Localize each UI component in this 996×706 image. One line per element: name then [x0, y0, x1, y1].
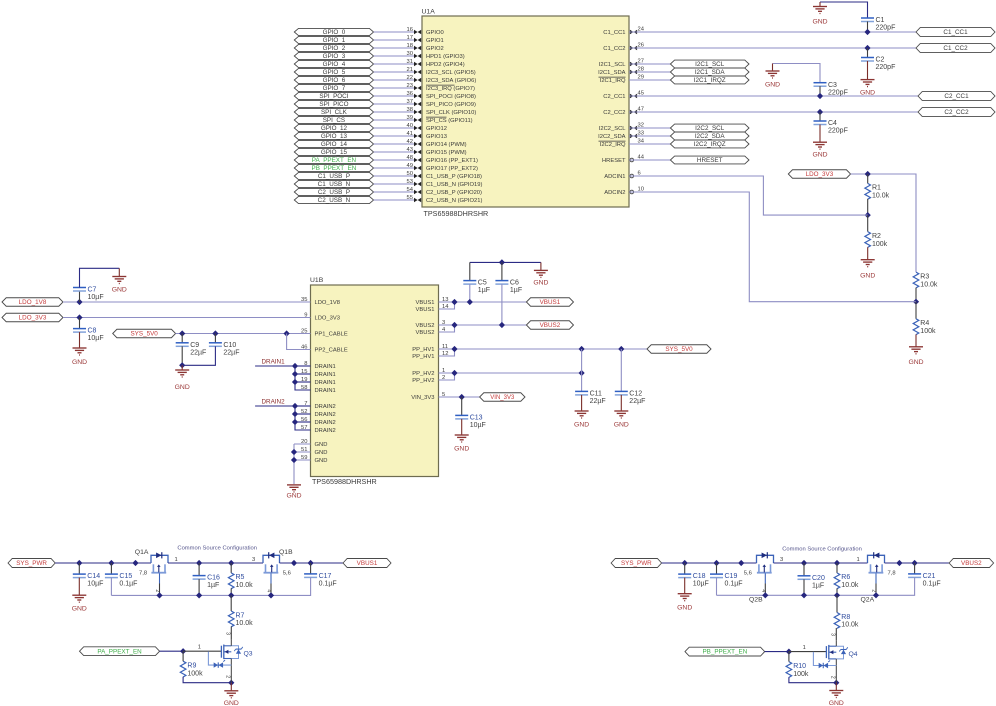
svg-text:C12: C12 [629, 391, 642, 398]
svg-text:GPIO_3: GPIO_3 [323, 53, 346, 60]
junction LDO_1V8 / C7 [76, 299, 82, 305]
junction rail j post Q2A [896, 560, 902, 566]
wire R6 bottom lead [836, 588, 838, 595]
U1A pin 36 SPI_POCI (GPIO8) [414, 94, 418, 98]
wire net I2C1_IRQZ [629, 79, 670, 81]
junction C9/C10 gnd node [179, 362, 185, 368]
net label C1_CC1 [916, 28, 995, 37]
svg-text:TPS65988DHRSHR: TPS65988DHRSHR [312, 477, 377, 486]
junction DRAIN1 j2 [292, 371, 298, 377]
junction rail j post Q1B [291, 560, 297, 566]
svg-text:GPIO_2: GPIO_2 [323, 45, 346, 52]
svg-text:SPI_CLK: SPI_CLK [321, 109, 348, 116]
svg-text:1µF: 1µF [478, 287, 490, 294]
svg-text:C1: C1 [876, 17, 885, 24]
wire C11 top wire [581, 349, 583, 391]
svg-text:10µF: 10µF [87, 581, 103, 588]
wire R8 top lead [836, 595, 838, 612]
net label SYS_5V0 [113, 329, 176, 338]
svg-text:LDO_3V3: LDO_3V3 [19, 315, 47, 322]
svg-text:2: 2 [870, 589, 876, 592]
wire net SPI_CLK to U1A pin 38 [374, 111, 414, 113]
svg-text:SYS_PWR: SYS_PWR [621, 560, 652, 567]
net label C2_USB_P [294, 188, 373, 195]
resistor R1 10.0k [865, 183, 871, 199]
junction bus j Q1B [268, 592, 274, 598]
wire net VBUS2 row [439, 324, 527, 326]
svg-text:Q1B: Q1B [279, 549, 293, 556]
junction bus j R6R8 [834, 592, 840, 598]
svg-text:GPIO_5: GPIO_5 [323, 69, 346, 76]
U1A pin 55 C2_USB_N (GPIO21) [414, 198, 418, 202]
svg-text:GND: GND [286, 492, 301, 499]
wire C16 bottom lead [198, 579, 200, 595]
junction VBUS2 j pin4 [451, 322, 457, 328]
wire net LDO_1V8 [63, 301, 311, 303]
junction SYS_5V0 / C9 [179, 330, 185, 336]
wire net HRESET [629, 159, 670, 161]
wire C5 bottom lead [469, 284, 471, 302]
U1A pin 30 HPD1 (GPIO3) [414, 54, 418, 58]
svg-text:TPS65988DHRSHR: TPS65988DHRSHR [424, 209, 489, 218]
svg-text:10.0k: 10.0k [841, 622, 859, 629]
wire net C1_CC1 [629, 31, 916, 33]
net label SPI_CS [294, 116, 373, 123]
wire R5 bottom lead [230, 588, 232, 595]
ground GND [581, 395, 583, 411]
wire C9 top lead [181, 334, 183, 343]
svg-text:0.1µF: 0.1µF [319, 581, 337, 588]
svg-text:C1_CC2: C1_CC2 [943, 45, 968, 52]
wire net GPIO_7 to U1A pin 23 [374, 87, 414, 89]
svg-text:220pF: 220pF [876, 25, 896, 32]
capacitor C12 22µF [615, 390, 628, 392]
net label GPIO_3 [294, 52, 373, 59]
wire R6 top lead [836, 563, 838, 573]
wire R4 top lead [915, 302, 917, 319]
svg-text:Common Source Configuration: Common Source Configuration [782, 547, 862, 553]
transistor Q2A [868, 555, 885, 563]
svg-text:Q2B: Q2B [749, 597, 763, 604]
capacitor C17 0.1µF [304, 573, 317, 575]
junction SYS_5V0 / PP2 branch [284, 330, 290, 336]
resistor R10 100k [786, 662, 792, 678]
wire C4 lead [819, 112, 821, 121]
wire source bus left [111, 577, 310, 595]
net label C1_CC2 [916, 44, 995, 53]
U1A pin 50 C1_USB_P (GPIO18) [414, 174, 418, 178]
svg-text:I2C1_SCL: I2C1_SCL [695, 61, 725, 68]
net label I2C2_SCL [670, 124, 749, 132]
svg-text:I2C3_SCL (GPIO5): I2C3_SCL (GPIO5) [426, 70, 476, 76]
capacitor C20 1µF [798, 575, 811, 577]
wire C18 top lead [684, 563, 686, 574]
wire C2 lead [867, 48, 869, 58]
svg-text:3: 3 [252, 557, 255, 563]
svg-text:GPIO12: GPIO12 [426, 126, 447, 132]
junction U1B GND j2 [291, 457, 297, 463]
svg-text:C8: C8 [88, 328, 97, 335]
svg-text:GND: GND [533, 280, 548, 287]
svg-text:0.1µF: 0.1µF [725, 581, 743, 588]
svg-text:I2C1_SDA: I2C1_SDA [598, 70, 626, 76]
wire net SYS_5V0 row [439, 348, 648, 350]
svg-text:GND: GND [112, 287, 127, 294]
wire net GPIO_4 to U1A pin 31 [374, 63, 414, 65]
svg-text:GND: GND [765, 82, 780, 89]
junction C1_CC1 / C1 [864, 29, 870, 35]
svg-text:GPIO15 (PWM): GPIO15 (PWM) [426, 150, 467, 156]
svg-text:PA_PPEXT_EN: PA_PPEXT_EN [97, 648, 142, 655]
net label GPIO_2 [294, 44, 373, 51]
resistor R6 10.0k [834, 573, 840, 589]
wire DRAIN1 stub 19 [295, 381, 311, 383]
junction bus j C16 [196, 592, 202, 598]
wire C20 bottom lead [803, 579, 805, 595]
wire rail Q2B to Q2A [774, 562, 868, 564]
net label I2C1_SDA [670, 68, 749, 76]
svg-text:Q1A: Q1A [135, 549, 149, 556]
svg-text:7,8: 7,8 [888, 571, 896, 577]
wire net I2C2_IRQZ [629, 143, 670, 145]
svg-text:220pF: 220pF [828, 128, 848, 135]
wire net GPIO_0 to U1A pin 16 [374, 31, 414, 33]
net label VBUS1 [343, 559, 391, 568]
svg-text:I2C2_SDA: I2C2_SDA [598, 134, 626, 140]
capacitor C11 22µF [575, 390, 588, 392]
wire U1B GND stub 59 [294, 459, 311, 461]
wire C3 lead to C2_CC1 [819, 86, 821, 96]
capacitor C13 10µF [455, 414, 468, 416]
junction rail j preQ1A [132, 560, 138, 566]
U1A pin 32 I2C2_SCL [630, 126, 634, 130]
svg-text:PP2_CABLE: PP2_CABLE [315, 348, 348, 354]
svg-text:1: 1 [803, 645, 806, 651]
wire C8 top lead [79, 318, 81, 329]
svg-text:C1_CC2: C1_CC2 [603, 46, 625, 52]
net label SPI_PICO [294, 100, 373, 107]
svg-text:LDO_3V3: LDO_3V3 [315, 316, 340, 322]
U1A pin 24 C1_CC1 [630, 30, 634, 34]
wire net PA_PPEXT_EN to U1A pin 48 [374, 159, 414, 161]
wire R10 top lead [788, 652, 790, 662]
svg-text:VBUS2: VBUS2 [415, 323, 434, 329]
junction R1/R2/ADCIN1 [865, 212, 871, 218]
svg-text:PP_HV2: PP_HV2 [412, 378, 434, 384]
ground GND [819, 125, 821, 143]
ground GND [540, 262, 542, 270]
junction C5/C6 top j [499, 259, 505, 265]
svg-text:1µF: 1µF [207, 582, 219, 589]
wire net SPI_CS to U1A pin 39 [374, 119, 414, 121]
svg-text:I2C3_IRQ (GPIO7): I2C3_IRQ (GPIO7) [426, 86, 475, 92]
net label I2C1_IRQZ [670, 76, 749, 84]
svg-text:GPIO_6: GPIO_6 [323, 77, 346, 84]
wire C17 top lead [310, 563, 312, 574]
junction SYS_5V0 j C12 [618, 346, 624, 352]
svg-text:R7: R7 [236, 612, 245, 619]
junction VIN_3V3 j C13 [459, 394, 465, 400]
U1A pin 18 GPIO2 [414, 46, 418, 50]
U1A pin 48 GPIO16 (PP_EXT1) [414, 158, 418, 162]
wire net GPIO_5 to U1A pin 21 [374, 71, 414, 73]
wire C19 top lead [716, 563, 718, 574]
svg-text:VBUS2: VBUS2 [961, 560, 982, 567]
wire R10 bottom jumper [789, 677, 836, 683]
wire U1B GND stub 51 [294, 451, 311, 453]
junction rail j C21 [912, 560, 918, 566]
wire C1 lead to C1_CC1 [867, 22, 869, 33]
svg-text:3: 3 [780, 557, 783, 563]
svg-text:GND: GND [677, 604, 692, 611]
svg-text:GPIO_4: GPIO_4 [323, 61, 346, 68]
net label C2_CC1 [918, 92, 995, 101]
svg-text:C21: C21 [923, 573, 936, 580]
wire C7 bottom lead [79, 291, 81, 302]
ground GND [118, 268, 120, 276]
resistor R4 100k [913, 319, 919, 335]
wire net I2C2_SCL [629, 127, 670, 129]
U1A pin 42 GPIO14 (PWM) [414, 142, 418, 146]
net label SPI_POCI [294, 92, 373, 99]
svg-text:C1_CC1: C1_CC1 [943, 29, 968, 36]
wire net GPIO_15 to U1A pin 43 [374, 151, 414, 153]
wire DRAIN2 stub 56 [295, 421, 311, 423]
svg-text:SPI_CS (GPIO11): SPI_CS (GPIO11) [426, 118, 473, 124]
U1A pin 26 C1_CC2 [630, 46, 634, 50]
ground GND [867, 61, 869, 80]
svg-text:GPIO_0: GPIO_0 [323, 29, 346, 36]
svg-text:PB_PPEXT_EN: PB_PPEXT_EN [702, 649, 747, 656]
transistor Q4 [825, 646, 827, 658]
svg-text:C2_CC2: C2_CC2 [944, 109, 969, 116]
wire net GPIO_12 to U1A pin 40 [374, 127, 414, 129]
svg-text:GPIO_15: GPIO_15 [321, 149, 348, 156]
svg-text:C2_USB_P (GPIO20): C2_USB_P (GPIO20) [426, 190, 482, 196]
U1A pin 33 I2C2_SDA [630, 134, 634, 138]
U1A pin 39 SPI_CS (GPIO11) [414, 118, 418, 122]
junction rail j C17 [308, 560, 314, 566]
svg-text:VBUS2: VBUS2 [540, 322, 561, 329]
svg-text:17: 17 [407, 35, 413, 41]
wire C21 top lead [914, 563, 916, 574]
wire PP2_CABLE branch [287, 334, 311, 350]
svg-text:C1_USB_P (GPIO18): C1_USB_P (GPIO18) [426, 174, 482, 180]
net label LDO_3V3 [2, 313, 63, 322]
wire net SPI_PICO to U1A pin 37 [374, 103, 414, 105]
svg-text:I2C3_SDA (GPIO6): I2C3_SDA (GPIO6) [426, 78, 476, 84]
wire rail Q2A to VBUS2 [885, 562, 950, 564]
ground GND [461, 419, 463, 435]
svg-text:49: 49 [407, 163, 413, 169]
svg-text:Q2A: Q2A [861, 597, 875, 604]
svg-text:I2C2_IRQZ: I2C2_IRQZ [694, 141, 726, 148]
junction DRAIN2 j3 [292, 419, 298, 425]
svg-text:HPD1 (GPIO3): HPD1 (GPIO3) [426, 54, 465, 60]
svg-text:SPI_PICO (GPIO9): SPI_PICO (GPIO9) [426, 102, 476, 108]
junction R3/R4/ADCIN2 [913, 299, 919, 305]
svg-text:SPI_POCI: SPI_POCI [319, 93, 348, 100]
svg-text:18: 18 [407, 43, 413, 49]
svg-text:C2_USB_N (GPIO21): C2_USB_N (GPIO21) [426, 198, 482, 204]
svg-text:DRAIN1: DRAIN1 [315, 364, 336, 370]
junction rail j C15 [108, 560, 114, 566]
svg-text:R10: R10 [793, 663, 806, 670]
svg-text:R4: R4 [920, 320, 929, 327]
svg-text:10.0k: 10.0k [920, 281, 938, 288]
junction C1_CC2 / C2 [864, 45, 870, 51]
svg-text:39: 39 [407, 115, 413, 121]
wire net GPIO_13 to U1A pin 41 [374, 135, 414, 137]
svg-text:LDO_1V8: LDO_1V8 [19, 299, 47, 306]
svg-text:43: 43 [407, 147, 413, 153]
svg-text:R5: R5 [236, 574, 245, 581]
svg-text:2: 2 [830, 676, 836, 679]
U1A pin 27 I2C1_SCL [630, 62, 634, 66]
svg-text:DRAIN2: DRAIN2 [262, 399, 286, 406]
U1A pin 31 HPD2 (GPIO4) [414, 62, 418, 66]
svg-text:GND: GND [315, 450, 328, 456]
svg-text:10µF: 10µF [693, 581, 709, 588]
svg-text:7,8: 7,8 [139, 571, 147, 577]
junction bus j Q1A [156, 592, 162, 598]
capacitor C10 22µF [209, 342, 222, 344]
resistor R8 10.0k [834, 613, 840, 629]
net label GPIO_13 [294, 132, 373, 139]
svg-text:C13: C13 [470, 415, 483, 422]
svg-text:GND: GND [860, 90, 875, 97]
svg-text:I2C2_SCL: I2C2_SCL [695, 125, 725, 132]
svg-text:C2_CC1: C2_CC1 [603, 94, 625, 100]
svg-text:1µF: 1µF [510, 287, 522, 294]
svg-text:0.1µF: 0.1µF [923, 581, 941, 588]
wire net PB_PPEXT_EN [765, 651, 789, 653]
svg-text:DRAIN2: DRAIN2 [315, 428, 336, 434]
wire net DRAIN1 [255, 366, 310, 390]
svg-text:GPIO16 (PP_EXT1): GPIO16 (PP_EXT1) [426, 158, 478, 164]
svg-text:R3: R3 [920, 273, 929, 280]
net label GPIO_4 [294, 60, 373, 67]
svg-text:5,6: 5,6 [744, 571, 752, 577]
wire PP_HV2 pin2 elbow [439, 373, 455, 380]
svg-text:5,6: 5,6 [283, 571, 291, 577]
svg-text:30: 30 [407, 51, 413, 57]
net label GPIO_14 [294, 140, 373, 147]
net label GPIO_7 [294, 84, 373, 91]
wire net GPIO_6 to U1A pin 22 [374, 79, 414, 81]
U1A pin 47 C2_CC2 [630, 110, 634, 114]
capacitor C15 0.1µF [105, 573, 118, 575]
svg-text:U1A: U1A [422, 9, 436, 16]
svg-text:10µF: 10µF [88, 335, 104, 342]
wire net I2C2_SDA [629, 135, 670, 137]
svg-text:21: 21 [407, 67, 413, 73]
svg-text:C11: C11 [590, 391, 602, 398]
capacitor C18 10µF [678, 573, 691, 575]
wire C6 bottom lead [501, 284, 503, 325]
wire rail SYS_PWR left [55, 562, 151, 564]
svg-text:SYS_5V0: SYS_5V0 [130, 331, 158, 338]
svg-text:DRAIN2: DRAIN2 [315, 412, 336, 418]
wire net C2_CC1 [629, 95, 918, 97]
svg-text:C7: C7 [88, 287, 97, 294]
junction rail j R5 [228, 560, 234, 566]
net label VBUS1 [526, 298, 573, 307]
svg-text:GND: GND [614, 421, 629, 428]
junction LDO_3V3 / C8 [76, 314, 82, 320]
junction bus j R5R7 [228, 592, 234, 598]
net label C2_CC2 [918, 108, 995, 117]
ground GND [915, 334, 917, 346]
wire R9 bottom jumper [183, 677, 231, 683]
svg-text:C4: C4 [828, 120, 837, 127]
wire net GPIO_3 to U1A pin 30 [374, 55, 414, 57]
junction VBUS1 j C5 [467, 299, 473, 305]
svg-text:GND: GND [72, 606, 87, 613]
svg-text:22µF: 22µF [190, 349, 206, 356]
wire C16 top lead [198, 563, 200, 576]
ground GND [78, 578, 80, 596]
wire net PA_PPEXT_EN [160, 650, 184, 652]
svg-text:SPI_CLK (GPIO10): SPI_CLK (GPIO10) [426, 110, 476, 116]
ground GND [79, 332, 81, 348]
wire C14 top lead [78, 563, 80, 574]
U1A pin 45 C2_CC1 [630, 94, 634, 98]
junction U1B GND j1 [291, 449, 297, 455]
wire C10 bottom jumper [182, 346, 215, 365]
U1A pin 54 C2_USB_P (GPIO20) [414, 190, 418, 194]
wire R2 top lead [867, 215, 869, 232]
svg-text:22µF: 22µF [223, 349, 239, 356]
svg-text:I2C1_IRQ: I2C1_IRQ [600, 78, 626, 84]
net label GPIO_0 [294, 28, 373, 35]
svg-text:C19: C19 [725, 573, 738, 580]
svg-text:2: 2 [225, 675, 231, 678]
wire C6 top lead [501, 262, 503, 280]
net label PB_PPEXT_EN [294, 164, 373, 171]
wire net VIN_3V3 [439, 396, 480, 398]
junction SYS_5V0 j pin12 [451, 346, 457, 352]
svg-text:SYS_PWR: SYS_PWR [16, 560, 47, 567]
svg-text:37: 37 [407, 99, 413, 105]
svg-text:R9: R9 [187, 663, 196, 670]
svg-text:GND: GND [315, 458, 328, 464]
svg-text:DRAIN1: DRAIN1 [315, 372, 336, 378]
svg-text:38: 38 [407, 107, 413, 113]
wire net GPIO_14 to U1A pin 42 [374, 143, 414, 145]
junction DRAIN1 j1 [292, 363, 298, 369]
junction Q3 source gnd j [228, 680, 234, 686]
capacitor C8 10µF [73, 328, 86, 330]
svg-text:C2: C2 [876, 57, 885, 64]
wire R7 top lead [230, 595, 232, 611]
svg-text:GND: GND [574, 421, 589, 428]
svg-text:100k: 100k [793, 671, 809, 678]
wire C15 bottom lead [110, 578, 112, 596]
wire net C1_USB_P to U1A pin 50 [374, 175, 414, 177]
svg-text:C6: C6 [510, 280, 519, 287]
resistor R7 10.0k [228, 611, 234, 627]
net label I2C1_SCL [670, 60, 749, 68]
svg-text:GPIO1: GPIO1 [426, 38, 444, 44]
svg-text:40: 40 [407, 123, 413, 129]
svg-text:GND: GND [175, 384, 190, 391]
junction VBUS1 j pin14 [451, 299, 457, 305]
junction rail j C14 [76, 560, 82, 566]
wire net ADCIN1 [629, 176, 868, 215]
resistor R3 10.0k [913, 272, 919, 288]
svg-text:1µF: 1µF [812, 582, 824, 589]
